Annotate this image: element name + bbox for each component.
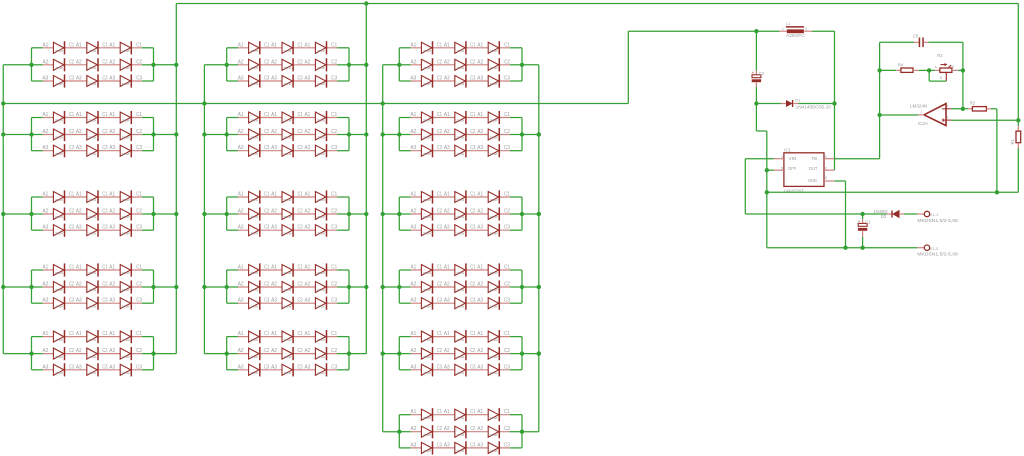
svg-text:C3: C3 bbox=[69, 298, 74, 304]
svg-text:C1: C1 bbox=[504, 331, 510, 337]
node col1 group5 anode bracket bbox=[32, 337, 43, 370]
pin labels col1 group5 row1 bbox=[43, 331, 143, 337]
svg-text:2R1W: 2R1W bbox=[490, 338, 498, 342]
svg-text:A2: A2 bbox=[444, 348, 450, 354]
svg-text:C1: C1 bbox=[298, 331, 303, 337]
pin labels col1 group1 row3 bbox=[43, 76, 143, 82]
svg-text:A1: A1 bbox=[411, 42, 417, 48]
diode D1 bbox=[756, 98, 834, 110]
diode D3131 bbox=[421, 74, 432, 87]
junction col3 right bus g4 bbox=[537, 285, 541, 289]
pin FB bbox=[824, 158, 834, 160]
svg-text:C2: C2 bbox=[759, 71, 765, 76]
junction col2 right bus g2 bbox=[364, 132, 368, 136]
svg-text:A3: A3 bbox=[444, 442, 450, 448]
svg-text:2R1W: 2R1W bbox=[456, 152, 464, 156]
svg-text:IC1: IC1 bbox=[784, 148, 791, 153]
svg-text:C1: C1 bbox=[102, 331, 107, 337]
svg-text:C3: C3 bbox=[437, 442, 442, 448]
junction col2 left bus g4 bbox=[202, 285, 206, 289]
wire col2 group2 row2 pin line bbox=[238, 134, 337, 136]
diode D3331 bbox=[421, 224, 432, 237]
svg-text:A2: A2 bbox=[43, 129, 49, 135]
diode D3611 bbox=[421, 408, 432, 421]
svg-text:A1: A1 bbox=[76, 331, 82, 337]
pin labels col2 group2 row2 bbox=[238, 129, 337, 135]
diode D3321 bbox=[421, 207, 432, 220]
svg-text:2R1W: 2R1W bbox=[317, 49, 325, 53]
svg-text:A2: A2 bbox=[477, 282, 483, 288]
svg-text:2R1W: 2R1W bbox=[250, 198, 258, 202]
pin labels col3 group3 row2 bbox=[411, 209, 510, 215]
svg-text:2R1W: 2R1W bbox=[55, 49, 63, 53]
wire col3 group5 cathode bracket to bus bbox=[522, 353, 539, 355]
svg-text:A1: A1 bbox=[109, 42, 115, 48]
pin labels col2 group4 row1 bbox=[238, 265, 337, 271]
diode D2211 bbox=[249, 111, 260, 124]
svg-text:A1: A1 bbox=[411, 409, 417, 415]
junction col2 group1 anode bracket bbox=[225, 63, 229, 67]
junction OFF pin bbox=[765, 168, 769, 172]
svg-text:C3: C3 bbox=[470, 442, 475, 448]
diode D3412 bbox=[455, 263, 466, 276]
svg-text:A3: A3 bbox=[305, 364, 311, 370]
svg-text:A1: A1 bbox=[477, 409, 483, 415]
svg-text:2R1W: 2R1W bbox=[456, 355, 464, 359]
junction col2 right bus g3 bbox=[364, 212, 368, 216]
diode D2411 bbox=[249, 263, 260, 276]
svg-text:A2: A2 bbox=[477, 209, 483, 215]
wire col3 group4 row2 pin line bbox=[411, 286, 510, 288]
svg-text:2R1W: 2R1W bbox=[88, 271, 96, 275]
svg-text:C3: C3 bbox=[504, 145, 510, 151]
pin labels col3 group5 row1 bbox=[411, 331, 510, 337]
junction C1 top / D2 node bbox=[860, 212, 864, 216]
svg-text:2R1W: 2R1W bbox=[284, 152, 292, 156]
svg-text:C3: C3 bbox=[504, 364, 510, 370]
wire col1 group5 row1 pin line bbox=[43, 336, 142, 338]
svg-text:2R1W: 2R1W bbox=[456, 416, 464, 420]
wire col2 group5 row2 pin line bbox=[238, 353, 337, 355]
svg-text:R3: R3 bbox=[937, 53, 943, 58]
svg-text:C2: C2 bbox=[69, 59, 74, 65]
diode D1511 bbox=[53, 330, 64, 343]
pin labels col3 group3 row1 bbox=[411, 192, 510, 198]
wire feedback right vertical bbox=[962, 42, 964, 109]
junction col1 group3 cathode bracket bbox=[151, 212, 155, 216]
svg-text:2R1W: 2R1W bbox=[284, 338, 292, 342]
diode D3222 bbox=[455, 128, 466, 141]
svg-text:2R1W: 2R1W bbox=[88, 82, 96, 86]
diode D2412 bbox=[282, 263, 293, 276]
svg-text:2R1W: 2R1W bbox=[317, 231, 325, 235]
svg-text:A2: A2 bbox=[411, 426, 417, 432]
svg-text:2R1W: 2R1W bbox=[284, 49, 292, 53]
wire col3 group4 bus to anode bracket bbox=[383, 286, 400, 288]
node col1 group1 anode bracket bbox=[32, 48, 43, 81]
diode D2311 bbox=[249, 190, 260, 203]
svg-text:C3: C3 bbox=[264, 298, 269, 304]
diode D2312 bbox=[282, 190, 293, 203]
svg-text:A3: A3 bbox=[76, 76, 82, 82]
svg-text:C3: C3 bbox=[298, 225, 303, 231]
svg-text:C3: C3 bbox=[504, 442, 510, 448]
junction col1 group1 cathode bracket bbox=[151, 63, 155, 67]
svg-text:C3: C3 bbox=[298, 76, 303, 82]
svg-text:A1: A1 bbox=[238, 112, 244, 118]
svg-text:2R1W: 2R1W bbox=[317, 215, 325, 219]
wire sense node bbox=[952, 4, 1019, 121]
svg-text:C3: C3 bbox=[298, 298, 303, 304]
diode D3513 bbox=[488, 330, 499, 343]
svg-text:A3: A3 bbox=[305, 298, 311, 304]
svg-text:2R1W: 2R1W bbox=[456, 49, 464, 53]
svg-text:C1: C1 bbox=[69, 192, 74, 198]
wire col3 group2 cathode bracket to bus bbox=[522, 134, 539, 136]
diode D1133 bbox=[120, 74, 131, 87]
svg-text:A3: A3 bbox=[444, 145, 450, 151]
diode D3332 bbox=[455, 224, 466, 237]
svg-text:2R1W: 2R1W bbox=[250, 271, 258, 275]
junction col3 group1 cathode bracket bbox=[520, 63, 524, 67]
svg-text:2R1W: 2R1W bbox=[88, 49, 96, 53]
svg-text:C3: C3 bbox=[69, 364, 74, 370]
svg-text:C2: C2 bbox=[298, 348, 303, 354]
wire col1 group3 row1 pin line bbox=[43, 196, 142, 198]
svg-text:2R1W: 2R1W bbox=[122, 152, 130, 156]
svg-text:A3: A3 bbox=[477, 364, 483, 370]
svg-text:C2: C2 bbox=[331, 59, 337, 65]
wire col3 group3 row2 pin line bbox=[411, 213, 510, 215]
svg-text:2R1W: 2R1W bbox=[55, 355, 63, 359]
svg-text:2R1W: 2R1W bbox=[456, 66, 464, 70]
svg-text:A3: A3 bbox=[43, 298, 49, 304]
svg-text:C2: C2 bbox=[136, 282, 142, 288]
diode D2512 bbox=[282, 330, 293, 343]
svg-text:A2: A2 bbox=[76, 348, 82, 354]
diode D2511 bbox=[249, 330, 260, 343]
svg-text:2R1W: 2R1W bbox=[55, 271, 63, 275]
svg-text:2R1W: 2R1W bbox=[122, 49, 130, 53]
junction col3 right bus g4 bbox=[537, 285, 541, 289]
junction col2 group1 cathode bracket bbox=[347, 63, 351, 67]
diode D3223 bbox=[488, 128, 499, 141]
junction C2 bottom / D1 anode bbox=[754, 101, 758, 105]
diode D1331 bbox=[53, 224, 64, 237]
svg-text:2R1W: 2R1W bbox=[55, 231, 63, 235]
wire LED return top rail bbox=[176, 3, 1018, 5]
svg-text:2R1W: 2R1W bbox=[490, 416, 498, 420]
svg-text:A3: A3 bbox=[238, 298, 244, 304]
R3 wiper wire bbox=[945, 72, 947, 81]
connector X1-2 bbox=[917, 245, 958, 257]
svg-text:C2: C2 bbox=[437, 129, 442, 135]
svg-text:A1: A1 bbox=[271, 192, 277, 198]
svg-text:A1: A1 bbox=[477, 112, 483, 118]
junction col2 group3 cathode bracket bbox=[347, 212, 351, 216]
svg-text:A2: A2 bbox=[271, 209, 277, 215]
diode D3631 bbox=[421, 441, 432, 454]
svg-text:C1: C1 bbox=[504, 265, 510, 271]
pin labels col1 group4 row3 bbox=[43, 298, 143, 304]
junction D1 cathode switch node bbox=[832, 101, 836, 105]
junction col1 group4 cathode bracket bbox=[151, 285, 155, 289]
junction col3 group5 anode bracket bbox=[397, 351, 401, 355]
svg-text:MKDSN1,5/2-5,08: MKDSN1,5/2-5,08 bbox=[917, 252, 958, 257]
svg-text:C2: C2 bbox=[470, 209, 475, 215]
svg-text:A1: A1 bbox=[444, 409, 450, 415]
wire col1 group3 cathode bracket to bus bbox=[154, 213, 177, 215]
junction col3 left bus g4 bbox=[381, 285, 385, 289]
svg-text:A3: A3 bbox=[43, 76, 49, 82]
wire col2 group1 row3 pin line bbox=[238, 80, 337, 82]
wire col1 group4 cathode bracket to bus bbox=[154, 286, 177, 288]
diode D1423 bbox=[120, 280, 131, 293]
connector X1-1 bbox=[917, 211, 958, 223]
svg-text:A2: A2 bbox=[444, 129, 450, 135]
svg-text:A3: A3 bbox=[444, 298, 450, 304]
svg-text:R4: R4 bbox=[898, 63, 904, 68]
diode D1213 bbox=[120, 111, 131, 124]
svg-text:2R1W: 2R1W bbox=[122, 355, 130, 359]
svg-text:C1: C1 bbox=[298, 112, 303, 118]
diode D3621 bbox=[421, 425, 432, 438]
svg-text:A2: A2 bbox=[411, 282, 417, 288]
wire col1 group1 row2 pin line bbox=[43, 64, 142, 66]
svg-text:C2: C2 bbox=[504, 426, 510, 432]
svg-text:A2: A2 bbox=[238, 59, 244, 65]
junction col1 left bus at supply bus bbox=[1, 101, 5, 105]
node col1 group3 anode bracket bbox=[32, 197, 43, 230]
svg-text:2R1W: 2R1W bbox=[55, 198, 63, 202]
svg-text:C2: C2 bbox=[437, 59, 442, 65]
svg-text:2R1W: 2R1W bbox=[88, 304, 96, 308]
svg-text:C3: C3 bbox=[437, 364, 442, 370]
diode D1513 bbox=[120, 330, 131, 343]
wire col2 group2 row3 pin line bbox=[238, 150, 337, 152]
diode D3221 bbox=[421, 128, 432, 141]
svg-text:C1: C1 bbox=[470, 265, 475, 271]
diode D1433 bbox=[120, 297, 131, 310]
diode D1222 bbox=[87, 128, 98, 141]
svg-text:C3: C3 bbox=[102, 364, 107, 370]
junction col1 group4 anode bracket bbox=[29, 285, 33, 289]
svg-text:2R1W: 2R1W bbox=[490, 152, 498, 156]
svg-text:A2: A2 bbox=[43, 348, 49, 354]
pin labels col1 group2 row3 bbox=[43, 145, 143, 151]
svg-text:C1: C1 bbox=[102, 112, 107, 118]
wire col2 group4 cathode bracket to bus bbox=[349, 286, 366, 288]
svg-text:A3: A3 bbox=[271, 145, 277, 151]
svg-text:A1: A1 bbox=[305, 331, 311, 337]
junction col3 group4 anode bracket bbox=[397, 285, 401, 289]
svg-text:A3: A3 bbox=[271, 76, 277, 82]
pin labels col2 group5 row2 bbox=[238, 348, 337, 354]
wire col3 group4 cathode bracket to bus bbox=[522, 286, 539, 288]
wire col3 group2 row1 pin line bbox=[411, 117, 510, 119]
svg-text:2R1W: 2R1W bbox=[250, 66, 258, 70]
junction col3 group3 cathode bracket bbox=[520, 212, 524, 216]
svg-text:A2: A2 bbox=[411, 209, 417, 215]
node col2 group3 cathode bracket bbox=[337, 197, 349, 230]
capacitor C2 bbox=[752, 31, 765, 103]
diode D1311 bbox=[53, 190, 64, 203]
svg-text:C1: C1 bbox=[331, 331, 337, 337]
svg-text:C2: C2 bbox=[69, 129, 74, 135]
svg-text:C1: C1 bbox=[470, 112, 475, 118]
svg-text:2R1W: 2R1W bbox=[250, 82, 258, 86]
junction ground rail tap bbox=[765, 190, 769, 194]
svg-text:2R1W: 2R1W bbox=[423, 82, 431, 86]
svg-text:2R1W: 2R1W bbox=[423, 136, 431, 140]
resistor R2 bbox=[968, 101, 991, 111]
svg-text:A2: A2 bbox=[271, 129, 277, 135]
wire col1 group1 row1 pin line bbox=[43, 47, 142, 49]
svg-text:2R1W: 2R1W bbox=[490, 215, 498, 219]
svg-text:A3: A3 bbox=[238, 145, 244, 151]
junction col1 right bus g1 bbox=[174, 63, 178, 67]
wire FB net bbox=[834, 158, 879, 160]
pin labels col2 group1 row3 bbox=[238, 76, 337, 82]
svg-text:C1: C1 bbox=[102, 42, 107, 48]
svg-text:A2: A2 bbox=[411, 129, 417, 135]
svg-text:2R1W: 2R1W bbox=[250, 371, 258, 375]
wire col1 group5 row2 pin line bbox=[43, 353, 142, 355]
svg-text:A3: A3 bbox=[411, 298, 417, 304]
wire col3 group2 bus to anode bracket bbox=[383, 134, 400, 136]
svg-text:A3: A3 bbox=[76, 298, 82, 304]
junction col2 group2 anode bracket bbox=[225, 132, 229, 136]
svg-text:2R1W: 2R1W bbox=[284, 271, 292, 275]
wire col2 left bus bbox=[203, 65, 205, 354]
svg-text:C2: C2 bbox=[437, 282, 442, 288]
svg-text:A1: A1 bbox=[238, 42, 244, 48]
svg-text:C5: C5 bbox=[913, 34, 919, 39]
svg-text:C1: C1 bbox=[865, 219, 871, 224]
diode D1432 bbox=[87, 297, 98, 310]
pin GND bbox=[824, 180, 834, 182]
svg-text:2R1W: 2R1W bbox=[55, 82, 63, 86]
svg-text:A1: A1 bbox=[76, 192, 82, 198]
svg-text:A1: A1 bbox=[109, 331, 115, 337]
wire col1 group5 cathode bracket to bus bbox=[154, 353, 177, 355]
svg-text:C1: C1 bbox=[437, 265, 442, 271]
svg-text:2R1W: 2R1W bbox=[55, 119, 63, 123]
wire col2 group5 row1 pin line bbox=[238, 336, 337, 338]
junction col1 group2 anode bracket bbox=[29, 132, 33, 136]
svg-text:A2: A2 bbox=[305, 282, 311, 288]
pin labels col3 group2 row2 bbox=[411, 129, 510, 135]
svg-text:2R1W: 2R1W bbox=[88, 215, 96, 219]
junction col1 right bus g3 bbox=[174, 212, 178, 216]
diode D1333 bbox=[120, 224, 131, 237]
diode D1412 bbox=[87, 263, 98, 276]
svg-text:A3: A3 bbox=[238, 76, 244, 82]
svg-text:2R1W: 2R1W bbox=[88, 198, 96, 202]
svg-text:+: + bbox=[752, 70, 755, 75]
pin op-amp inverting bbox=[942, 108, 952, 110]
diode D2322 bbox=[282, 207, 293, 220]
svg-text:A2: A2 bbox=[43, 59, 49, 65]
diode D1431 bbox=[53, 297, 64, 310]
svg-text:C2: C2 bbox=[298, 282, 303, 288]
junction col3 left bus at supply bus bbox=[381, 101, 385, 105]
wire col2 group1 cathode bracket to bus bbox=[349, 64, 366, 66]
wire col1 group1 row3 pin line bbox=[43, 80, 142, 82]
svg-text:A3: A3 bbox=[109, 225, 115, 231]
wire col3 right bus bbox=[538, 65, 540, 432]
junction col2 group4 cathode bracket bbox=[347, 285, 351, 289]
junction col2 left bus g2 bbox=[202, 132, 206, 136]
svg-text:X1-2: X1-2 bbox=[930, 246, 939, 251]
diode D1223 bbox=[120, 128, 131, 141]
wire col3 group6 row3 pin line bbox=[411, 447, 510, 449]
svg-text:C2: C2 bbox=[264, 209, 269, 215]
junction col3 group2 cathode bracket bbox=[520, 132, 524, 136]
svg-text:2R1W: 2R1W bbox=[490, 304, 498, 308]
wire col3 group6 bus to anode bracket bbox=[383, 431, 400, 433]
diode D1112 bbox=[87, 41, 98, 54]
svg-text:1N4148DO35-10: 1N4148DO35-10 bbox=[796, 105, 832, 110]
wire col3 group5 row3 pin line bbox=[411, 369, 510, 371]
diode D3322 bbox=[455, 207, 466, 220]
diode D2421 bbox=[249, 280, 260, 293]
wire GND pin drop bbox=[834, 181, 845, 248]
diode D2233 bbox=[315, 144, 326, 157]
pin labels col2 group5 row3 bbox=[238, 364, 337, 370]
wire inverting input to R2 bbox=[952, 108, 968, 110]
svg-text:2R1W: 2R1W bbox=[88, 66, 96, 70]
junction col3 group6 anode bracket bbox=[397, 430, 401, 434]
svg-text:2R1W: 2R1W bbox=[250, 215, 258, 219]
svg-text:C3: C3 bbox=[264, 364, 269, 370]
svg-text:X1-1: X1-1 bbox=[930, 212, 939, 217]
svg-text:C1: C1 bbox=[264, 265, 269, 271]
svg-text:A1: A1 bbox=[411, 331, 417, 337]
svg-text:C2: C2 bbox=[136, 59, 142, 65]
svg-text:A2: A2 bbox=[477, 59, 483, 65]
diode D2131 bbox=[249, 74, 260, 87]
wire ground jog bbox=[756, 104, 766, 248]
svg-text:C1: C1 bbox=[69, 331, 74, 337]
svg-text:A2: A2 bbox=[305, 348, 311, 354]
node col2 group2 anode bracket bbox=[227, 118, 238, 151]
svg-text:C2: C2 bbox=[504, 282, 510, 288]
svg-text:A3: A3 bbox=[477, 145, 483, 151]
diode D1321 bbox=[53, 207, 64, 220]
diode D1122 bbox=[87, 58, 98, 71]
svg-text:2R1W: 2R1W bbox=[284, 82, 292, 86]
svg-text:2R1W: 2R1W bbox=[122, 136, 130, 140]
svg-text:A1: A1 bbox=[477, 192, 483, 198]
pin labels col2 group3 row3 bbox=[238, 225, 337, 231]
svg-text:MKDSN1,5/2-5,08: MKDSN1,5/2-5,08 bbox=[917, 218, 958, 223]
svg-text:2R1W: 2R1W bbox=[456, 119, 464, 123]
svg-text:C1: C1 bbox=[470, 42, 475, 48]
diode D3421 bbox=[421, 280, 432, 293]
wire col1 group2 row3 pin line bbox=[43, 150, 142, 152]
svg-text:C1: C1 bbox=[331, 192, 337, 198]
svg-text:2R1W: 2R1W bbox=[317, 82, 325, 86]
diode D2213 bbox=[315, 111, 326, 124]
svg-text:2R1W: 2R1W bbox=[456, 136, 464, 140]
svg-text:2R1W: 2R1W bbox=[55, 215, 63, 219]
diode D3133 bbox=[488, 74, 499, 87]
svg-text:2R1W: 2R1W bbox=[423, 449, 431, 453]
svg-text:A3: A3 bbox=[43, 145, 49, 151]
diode D3423 bbox=[488, 280, 499, 293]
pin labels col2 group4 row2 bbox=[238, 282, 337, 288]
